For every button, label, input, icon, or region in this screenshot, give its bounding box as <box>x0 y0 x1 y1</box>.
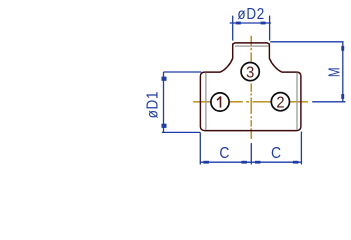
svg-text:øD1: øD1 <box>145 91 162 119</box>
dimension M extension line top <box>270 41 343 43</box>
dimension øD1 arrow bottom <box>162 124 167 128</box>
dimension C arrow mid right <box>255 161 261 164</box>
dimension C arrow far left <box>203 161 209 164</box>
inner edge line left (gray) <box>205 73 207 130</box>
svg-text:øD2: øD2 <box>237 6 265 23</box>
dimension øD2 arrow right <box>261 22 266 25</box>
vertical centerline (dash-dot through ports 3 and body) <box>250 36 252 139</box>
dimension øD2 arrow left <box>236 22 241 25</box>
dimension øD2 extension line right <box>269 16 271 41</box>
dimension M arrow top <box>341 46 344 51</box>
dimension C arrow far right <box>293 161 299 164</box>
dimension M extension line bottom <box>312 101 345 103</box>
dimension øD1 extension line bottom <box>162 131 200 133</box>
port label 1 (drawn as path, Arial-style footless 1) <box>217 96 222 107</box>
dimension øD1 arrow top <box>162 77 167 81</box>
dimension øD2 label <box>237 6 265 23</box>
dimension øD1 label <box>145 91 162 119</box>
port label 3 <box>246 64 254 82</box>
dimension M arrow bottom <box>341 94 344 99</box>
svg-text:M: M <box>326 67 343 77</box>
port circle 3 <box>241 63 259 81</box>
svg-text:2: 2 <box>276 94 284 112</box>
dimension øD2 extension line left <box>232 16 234 41</box>
svg-text:3: 3 <box>246 64 254 82</box>
dimension øD1 dimension line <box>163 72 165 132</box>
port circle 2 <box>271 93 289 111</box>
dimension C extension line left <box>199 133 201 165</box>
dimension C dimension line <box>200 161 301 163</box>
dimension M dimension line <box>342 42 344 102</box>
dimension C extension line right <box>300 132 302 165</box>
dimension M label <box>326 67 343 77</box>
port label 2 <box>276 94 284 112</box>
inner edge line neck (gray) <box>235 45 269 47</box>
dimension C extension line middle <box>250 143 252 164</box>
dimension C label right <box>271 144 281 162</box>
dimension øD1 extension line top <box>164 71 202 73</box>
horizontal centerline (dash-dot through ports 1 and 2) <box>193 101 308 103</box>
svg-text:C: C <box>219 144 229 162</box>
port circle 1 <box>211 93 229 111</box>
inner edge line right (gray) <box>296 73 298 130</box>
part outline (T-shaped fitting body, side view) <box>200 43 301 131</box>
dimension C arrow mid left <box>241 161 247 164</box>
dimension C label left <box>219 144 229 162</box>
svg-text:C: C <box>271 144 281 162</box>
dimension øD2 dimension line <box>230 22 271 24</box>
